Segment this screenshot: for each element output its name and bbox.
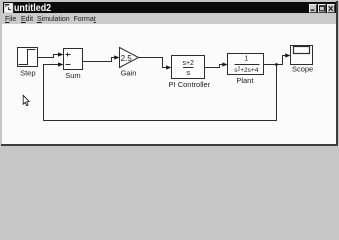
scope screen bbox=[294, 47, 310, 54]
minus sign bbox=[66, 64, 71, 66]
wire Sum to Gain bbox=[83, 58, 116, 62]
svg-text:s: s bbox=[186, 68, 190, 77]
plant block bbox=[228, 54, 264, 75]
maximize button bbox=[318, 4, 326, 13]
minimize button bbox=[309, 4, 317, 13]
window icon bbox=[4, 3, 14, 13]
arrowhead into Sum minus bbox=[58, 62, 64, 66]
plus sign bbox=[66, 54, 71, 56]
junction dot bbox=[275, 63, 278, 66]
step output nub bbox=[38, 57, 41, 59]
canvas bbox=[2, 24, 337, 144]
title text bbox=[14, 4, 51, 14]
window bottom border bbox=[1, 144, 338, 146]
feedback wire bbox=[44, 65, 277, 121]
gain triangle Gain bbox=[120, 48, 139, 68]
fraction bar Plant bbox=[235, 64, 260, 66]
PI controller block bbox=[172, 56, 205, 79]
svg-text:PI Controller: PI Controller bbox=[169, 80, 211, 89]
arrowhead into Plant bbox=[222, 62, 227, 66]
fraction bar PI bbox=[183, 67, 194, 69]
svg-text:1: 1 bbox=[244, 56, 248, 63]
arrowhead into PI bbox=[166, 65, 171, 69]
menu bar bbox=[2, 14, 336, 24]
wire Step to Sum bbox=[40, 55, 59, 58]
svg-text:Scope: Scope bbox=[292, 65, 313, 74]
svg-text:2.5: 2.5 bbox=[121, 54, 133, 63]
svg-text:Sum: Sum bbox=[65, 71, 80, 80]
svg-text:s+2: s+2 bbox=[182, 60, 194, 67]
sum block Sum bbox=[64, 49, 83, 70]
mouse cursor bbox=[23, 95, 29, 105]
window right border bbox=[336, 1, 338, 146]
arrowhead into Gain bbox=[114, 55, 119, 59]
wire Plant to junction to Scope bbox=[264, 56, 287, 65]
close button bbox=[327, 4, 335, 13]
arrowhead into Sum plus bbox=[58, 52, 64, 56]
wire Gain to PI bbox=[139, 58, 168, 68]
step block Step bbox=[18, 48, 38, 67]
svg-text:Step: Step bbox=[20, 68, 35, 77]
scope block bbox=[291, 46, 313, 65]
svg-text:Plant: Plant bbox=[236, 76, 254, 85]
step icon waveform bbox=[19, 50, 36, 65]
window title bar bbox=[3, 2, 336, 14]
wire PI to Plant bbox=[205, 65, 224, 68]
svg-text:Gain: Gain bbox=[121, 68, 137, 77]
arrowhead into Scope bbox=[285, 53, 290, 57]
